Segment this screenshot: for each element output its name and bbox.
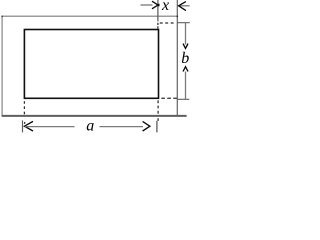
dotted connector vertical below x-dim tick (157, 23, 159, 29)
b-dim down arrowhead (183, 44, 188, 49)
a-dim left shaft (25, 126, 75, 128)
b-dim lower shaft (185, 72, 187, 100)
x-dim left-pointing arrowhead (179, 2, 186, 11)
dotted extension of inner bottom edge to b-dim (161, 97, 177, 99)
a-dim right-pointing arrowhead (143, 121, 150, 131)
outer rectangle top-left corner (1, 16, 3, 18)
x-dim left extension tick (157, 0, 159, 21)
dotted extension inner right edge downward (157, 100, 159, 113)
dotted extension inner left edge below outer bottom (24, 122, 26, 124)
x-dim right-pointing arrow shaft (141, 4, 153, 6)
outer rectangle top edge (2, 15, 178, 17)
outer rectangle bottom edge (extends right to b-dim line) (2, 115, 187, 117)
a-dim left tick (22, 120, 24, 132)
a-dim right shaft (100, 126, 144, 128)
dotted connector horizontal to b-dim top tick (160, 22, 174, 24)
dotted extension inner left edge downward (23, 101, 25, 114)
svg-text:x: x (161, 0, 169, 14)
x-dim right-pointing arrowhead (152, 1, 159, 9)
a-dim left-pointing arrowhead (24, 121, 33, 131)
b-dim bottom tick (177, 98, 189, 100)
b-dim up arrowhead (183, 67, 188, 72)
outer rectangle right edge (extends to top as x-dim extension) (176, 0, 178, 116)
svg-text:a: a (86, 117, 94, 133)
outer rectangle left edge (1, 16, 3, 116)
x-dim left-pointing arrow shaft (179, 5, 189, 7)
outer rectangle top-right junction (177, 16, 179, 18)
a-dim right tick (156, 121, 158, 133)
b-dim top tick (177, 22, 190, 24)
dotted extension inner right edge below outer bottom (157, 118, 159, 121)
inner rectangle (24, 30, 158, 99)
svg-text:b: b (181, 50, 189, 67)
b-dim upper shaft (185, 23, 187, 45)
